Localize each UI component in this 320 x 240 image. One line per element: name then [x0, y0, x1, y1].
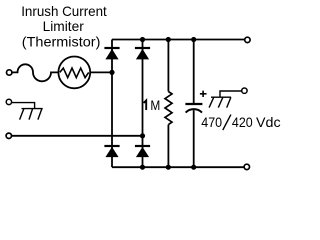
chassis ground (right) — [209, 97, 231, 107]
wire: squiggle from line terminal to thermistor — [12, 64, 59, 81]
wire: resistor top lead — [167, 40, 169, 92]
terminal: AC neutral input — [6, 133, 11, 138]
node: top rail / D2 junction — [140, 37, 145, 42]
wire: top rail (+ output) — [112, 39, 245, 41]
svg-text:M: M — [150, 97, 160, 113]
node: AC1 junction on left bridge column — [109, 70, 114, 75]
svg-text:Vdc: Vdc — [256, 114, 281, 130]
wire: to right chassis ground — [220, 91, 242, 97]
wire: right bridge column bottom (D4 to bottom rail) — [142, 146, 144, 167]
wire: thermistor to bridge node — [91, 71, 112, 73]
svg-text:Limiter: Limiter — [43, 18, 85, 34]
resistor R1 1M (bleeder) — [165, 92, 172, 125]
node: bottom rail / resistor junction — [166, 165, 171, 170]
node: top rail / capacitor junction — [191, 37, 196, 42]
wire: AC neutral to bridge AC2 node — [12, 135, 143, 137]
wire: right bridge column top (rail to D2) — [142, 40, 144, 147]
wire: bottom rail (- output) — [112, 166, 244, 168]
terminal: AC line input — [7, 70, 12, 75]
diode D1 (top left, AC1 to +) — [104, 48, 119, 59]
label: Inrush Current Limiter (Thermistor) — [21, 3, 107, 50]
value label 470/420 Vdc — [201, 114, 280, 130]
value label 1M — [144, 97, 161, 113]
diode D2 (top right, AC2 to +) — [135, 48, 150, 59]
svg-text:(Thermistor): (Thermistor) — [22, 34, 101, 50]
diode D3 (bottom left, - to AC1) — [104, 146, 119, 157]
wire: capacitor bottom lead — [193, 110, 195, 167]
wire: left bridge column (top rail to bottom diode) — [111, 40, 113, 147]
wire: to left chassis ground — [12, 103, 35, 109]
capacitor C1 (electrolytic, polarized) — [185, 104, 202, 113]
node: top rail / resistor junction — [166, 37, 171, 42]
node: bottom rail / D4 junction — [140, 165, 145, 170]
wire: left bridge column bottom (D3 to bottom rail) — [111, 146, 113, 167]
svg-text:420: 420 — [232, 114, 253, 130]
wire: capacitor top lead — [193, 40, 195, 104]
wire: resistor bottom lead — [167, 125, 169, 168]
chassis ground (left) — [20, 109, 43, 120]
terminal: chassis ground pin (line side) — [6, 99, 11, 104]
terminal: + DC output — [245, 37, 250, 42]
diode D4 (bottom right, - to AC2) — [135, 146, 150, 157]
node: AC2 junction on right bridge column — [140, 133, 145, 138]
svg-text:470: 470 — [201, 114, 222, 130]
thermistor RT1 (inrush current limiter) — [58, 57, 90, 89]
svg-text:Inrush Current: Inrush Current — [21, 3, 107, 19]
terminal: - DC output — [244, 164, 249, 169]
polarity mark + — [200, 91, 207, 97]
node: bottom rail / capacitor junction — [191, 165, 196, 170]
terminal: chassis ground pin (output side) — [242, 88, 247, 93]
